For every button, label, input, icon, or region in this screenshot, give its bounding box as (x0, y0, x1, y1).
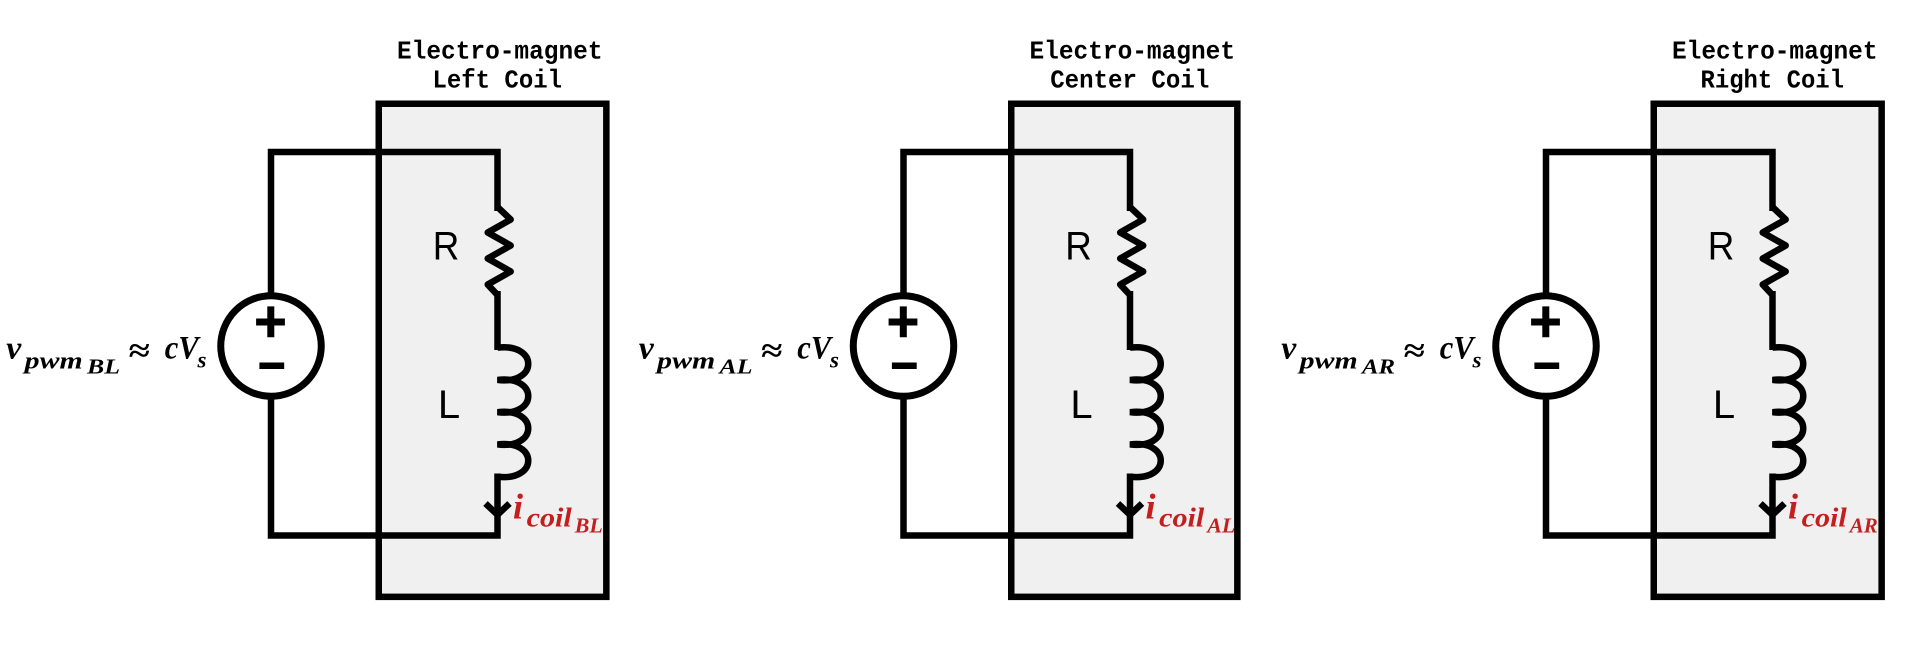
wire: source top to resistor (left) (271, 152, 498, 293)
voltage source v_pwm_AR (right) (1496, 296, 1597, 397)
voltage source v_pwm_BL (left) (221, 296, 322, 397)
resistor R (left) (488, 207, 511, 295)
plus terminal (1531, 306, 1560, 337)
wire: resistor to inductor (right) (1769, 291, 1776, 350)
minus terminal (892, 362, 917, 369)
title: Electro-magnet Right Coil (1672, 36, 1878, 95)
current arrow i_coil_BL (486, 504, 510, 515)
svg-text:R: R (1708, 224, 1735, 269)
electro-magnet box (left coil) (379, 104, 607, 597)
svg-text:L: L (438, 383, 460, 427)
wire: resistor to inductor (left) (494, 291, 501, 350)
svg-text:Right Coil: Right Coil (1701, 66, 1845, 96)
svg-text:Electro-magnet: Electro-magnet (397, 36, 603, 66)
electro-magnet box (center coil) (1011, 104, 1237, 597)
electro-magnet box (right coil) (1654, 104, 1882, 597)
svg-text:Center Coil: Center Coil (1050, 66, 1209, 96)
svg-text:R: R (1065, 224, 1092, 269)
resistor R (center) (1120, 207, 1143, 295)
plus terminal (889, 306, 918, 337)
wire: resistor to inductor (center) (1127, 291, 1134, 350)
svg-text:L: L (1713, 383, 1735, 427)
inductor L (right) (1773, 347, 1804, 477)
svg-text:Electro-magnet: Electro-magnet (1030, 36, 1236, 66)
wire: inductor to source bottom (right) (1546, 400, 1773, 536)
minus terminal (259, 362, 284, 369)
current arrow i_coil_AL (1118, 504, 1142, 515)
svg-text:R: R (433, 224, 460, 269)
svg-text:Electro-magnet: Electro-magnet (1672, 36, 1878, 66)
wire: inductor to source bottom (left) (271, 400, 498, 536)
current arrow i_coil_AR (1761, 504, 1785, 515)
inductor L (center) (1130, 347, 1161, 477)
wire: source top to resistor (center) (904, 152, 1131, 293)
resistor R (right) (1763, 207, 1786, 295)
voltage source v_pwm_AL (center) (853, 296, 954, 397)
svg-text:Left Coil: Left Coil (433, 66, 563, 96)
svg-text:L: L (1070, 383, 1092, 427)
title: Electro-magnet Left Coil (397, 36, 603, 95)
svg-text:vpwmAR≈cVs: vpwmAR≈cVs (1281, 331, 1481, 379)
svg-text:vpwmAL≈cVs: vpwmAL≈cVs (639, 331, 839, 379)
title: Electro-magnet Center Coil (1030, 36, 1236, 95)
wire: source top to resistor (right) (1546, 152, 1773, 293)
plus terminal (256, 306, 285, 337)
inductor L (left) (498, 347, 529, 477)
minus terminal (1534, 362, 1559, 369)
wire: inductor to source bottom (center) (904, 400, 1131, 536)
svg-text:vpwmBL≈cVs: vpwmBL≈cVs (6, 331, 206, 379)
